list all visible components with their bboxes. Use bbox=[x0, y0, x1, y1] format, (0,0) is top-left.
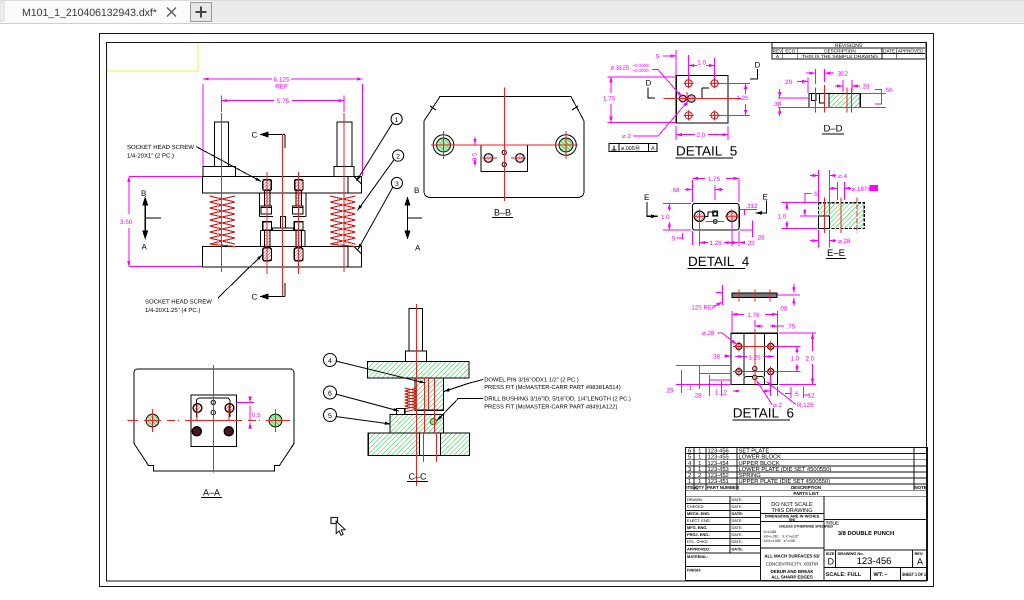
upper die block edges bbox=[260, 193, 307, 216]
svg-text:⌀.28: ⌀.28 bbox=[702, 330, 715, 337]
spring right bbox=[330, 196, 356, 247]
A-A centerlines bbox=[128, 365, 291, 473]
svg-text:.XXX=±.005 X°=±30´: .XXX=±.005 X°=±30´ bbox=[763, 539, 796, 543]
C-C dowel pins red bbox=[424, 378, 437, 462]
spring left bbox=[210, 196, 236, 247]
A-A small hole upper bbox=[211, 400, 215, 404]
svg-text:2: 2 bbox=[698, 472, 701, 479]
E-E pins red bbox=[825, 198, 858, 234]
svg-text:(IN): (IN) bbox=[789, 517, 796, 522]
svg-text:M101_1_210406132943.dxf*: M101_1_210406132943.dxf* bbox=[22, 7, 157, 19]
svg-text:1.12: 1.12 bbox=[715, 390, 728, 397]
svg-text:C–C: C–C bbox=[408, 472, 427, 482]
bottom plate bbox=[203, 247, 362, 268]
svg-text:APPROVED:: APPROVED: bbox=[687, 547, 710, 552]
B-B centerlines bbox=[431, 88, 578, 202]
leader dowel pin note bbox=[444, 380, 483, 392]
svg-text:1: 1 bbox=[698, 467, 701, 473]
svg-text:1: 1 bbox=[698, 449, 701, 455]
svg-text:A: A bbox=[142, 243, 148, 252]
svg-text:LOWER BLOCK: LOWER BLOCK bbox=[739, 454, 782, 461]
svg-text:1.75: 1.75 bbox=[747, 312, 760, 319]
svg-text:⌀.187±: ⌀.187± bbox=[852, 186, 872, 193]
detail4 dim .68 bbox=[685, 185, 724, 200]
svg-text:2: 2 bbox=[396, 153, 400, 160]
detail4 dim .312 right bbox=[739, 209, 757, 215]
svg-text:⌀.28: ⌀.28 bbox=[838, 238, 851, 245]
detail6 dim .75 bbox=[755, 320, 784, 327]
lower screw left: shank bbox=[265, 230, 270, 248]
detail4 block bbox=[692, 203, 739, 230]
svg-text:1.0: 1.0 bbox=[661, 214, 670, 221]
lower screw right: shank bbox=[296, 230, 301, 248]
E-E dim dia .187 bbox=[830, 182, 852, 200]
svg-text:ALL MACH SURFACES 63/: ALL MACH SURFACES 63/ bbox=[764, 554, 820, 559]
mouse cursor arrow bbox=[336, 521, 345, 535]
svg-text:WT: –: WT: – bbox=[874, 572, 888, 578]
detail6 dim 2.0 right bbox=[779, 333, 816, 384]
svg-text:SIZE: SIZE bbox=[826, 551, 835, 556]
svg-text:LOWER PLATE (DIE SET 4500550): LOWER PLATE (DIE SET 4500550) bbox=[739, 466, 832, 473]
detail4 dim .25 bbox=[732, 231, 745, 246]
svg-text:⌀.005Ⓜ: ⌀.005Ⓜ bbox=[621, 145, 641, 152]
detail4 dim .5 bbox=[677, 231, 693, 245]
svg-text:DATE: DATE bbox=[883, 49, 895, 54]
svg-text:1.75: 1.75 bbox=[708, 176, 721, 183]
A-A bolt top-left bbox=[193, 404, 202, 413]
svg-text:.312: .312 bbox=[836, 71, 849, 78]
revisions table bbox=[772, 43, 925, 59]
D-D bar bbox=[809, 93, 860, 107]
section marker B/A left bbox=[143, 198, 161, 238]
svg-text:123-453: 123-453 bbox=[708, 466, 729, 473]
C-C punch holder block bbox=[390, 415, 444, 434]
svg-text:E: E bbox=[763, 193, 768, 202]
svg-text:2.0: 2.0 bbox=[806, 356, 815, 363]
detail6 left ext lines bbox=[676, 366, 731, 396]
leader drill bushing note bbox=[437, 399, 483, 421]
svg-text:C: C bbox=[252, 131, 258, 140]
svg-text:QTY: QTY bbox=[695, 485, 704, 490]
svg-text:⌀.2: ⌀.2 bbox=[622, 133, 631, 140]
E-E notch bbox=[819, 216, 830, 229]
svg-text:1.0: 1.0 bbox=[697, 60, 706, 67]
svg-text:APPROVED: APPROVED bbox=[898, 49, 924, 54]
svg-text:⌀.3125: ⌀.3125 bbox=[611, 65, 630, 72]
svg-text:SCALE: FULL: SCALE: FULL bbox=[826, 572, 862, 578]
svg-text:.5: .5 bbox=[654, 53, 660, 60]
svg-text:.68: .68 bbox=[671, 187, 680, 194]
D-D dim .38 bbox=[778, 89, 886, 116]
svg-text:MFG. ENG.: MFG. ENG. bbox=[687, 525, 707, 530]
svg-text:DOWEL PIN 3/16”ODX1 1/2” (2 PC: DOWEL PIN 3/16”ODX1 1/2” (2 PC.) bbox=[484, 377, 579, 384]
svg-text:–0.0000: –0.0000 bbox=[632, 68, 649, 73]
B-B small hole lower bbox=[502, 162, 506, 166]
detail6 holes bbox=[736, 343, 774, 379]
upper screw left: head bbox=[263, 180, 271, 191]
svg-text:DRILL BUSHING 3/16”ID, 5/16”OD: DRILL BUSHING 3/16”ID, 5/16”OD, 1/4”LENG… bbox=[484, 396, 631, 403]
svg-text:FINISH:: FINISH: bbox=[687, 568, 701, 573]
detail5 D cut mark center bbox=[702, 88, 709, 98]
svg-text:.38: .38 bbox=[773, 101, 782, 108]
A-A plate outline bbox=[134, 369, 294, 471]
C-C shank collar bbox=[406, 351, 427, 362]
svg-text:123-452: 123-452 bbox=[708, 472, 729, 479]
balloon 1 bbox=[357, 113, 403, 181]
yellow zoom-window rectangle bbox=[107, 43, 198, 72]
D-D dim .312 bbox=[806, 69, 834, 84]
svg-text:DRAWN:: DRAWN: bbox=[687, 497, 703, 502]
A-A small hole lower bbox=[211, 410, 215, 414]
A-A bushing right bbox=[269, 414, 282, 427]
svg-text:TITLE:: TITLE: bbox=[826, 521, 840, 526]
svg-text:DTL. CHKD.: DTL. CHKD. bbox=[687, 539, 709, 544]
detail4 keyway path bbox=[705, 212, 713, 216]
B-B plate outline bbox=[424, 97, 584, 198]
detail6 dim .12 bbox=[804, 387, 810, 398]
svg-text:0.5: 0.5 bbox=[472, 152, 479, 161]
detail5 dim .5 bbox=[663, 50, 676, 75]
dim 3.50 bbox=[129, 177, 202, 267]
svg-text:PROJ. ENG.:: PROJ. ENG.: bbox=[687, 532, 711, 537]
detail6 dim 1.0 right bbox=[775, 346, 801, 371]
svg-text:4: 4 bbox=[328, 358, 332, 365]
svg-text:6.125: 6.125 bbox=[274, 77, 290, 84]
D-D pin lines red bbox=[815, 85, 851, 113]
detail6 dim .125 REF bbox=[716, 284, 800, 306]
svg-text:123-454: 123-454 bbox=[708, 460, 730, 467]
E-E block bbox=[819, 203, 865, 229]
svg-text:CHECKD:: CHECKD: bbox=[687, 504, 705, 509]
svg-text:.312: .312 bbox=[746, 203, 759, 210]
detail4 hole right bbox=[725, 209, 739, 223]
title block right texts bbox=[826, 521, 926, 579]
svg-text:1/4-20X1” (2 PC.): 1/4-20X1” (2 PC.) bbox=[127, 153, 174, 160]
svg-text:ECO: ECO bbox=[785, 49, 795, 54]
svg-text:3.50: 3.50 bbox=[120, 219, 133, 226]
A-A punch profile bbox=[197, 398, 231, 417]
top plate bbox=[203, 177, 362, 194]
svg-text:REV: REV bbox=[773, 49, 783, 54]
lower screw right: nut bbox=[294, 222, 303, 231]
svg-text:1: 1 bbox=[395, 117, 399, 124]
svg-text:DETAIL 4: DETAIL 4 bbox=[688, 254, 750, 269]
svg-text:2.0: 2.0 bbox=[697, 132, 706, 139]
detail5 GD&T frame bbox=[609, 144, 657, 152]
svg-text:.25: .25 bbox=[665, 388, 674, 395]
svg-text:1: 1 bbox=[698, 455, 701, 461]
svg-text:.56: .56 bbox=[884, 87, 893, 94]
svg-text:SPRING: SPRING bbox=[739, 472, 762, 479]
E-E dim .5 bbox=[805, 194, 811, 203]
title block left column texts bbox=[687, 497, 743, 573]
svg-text:.XX=±.010 X.X°=±1/2°: .XX=±.010 X.X°=±1/2° bbox=[763, 535, 800, 539]
svg-text:.5: .5 bbox=[813, 191, 819, 198]
socket head screw note top bbox=[127, 144, 194, 160]
B-B bushing right bbox=[556, 135, 577, 156]
post collar left bbox=[203, 167, 236, 177]
svg-text:5.75: 5.75 bbox=[277, 98, 290, 105]
A-A die block bbox=[191, 395, 236, 446]
leader bottom note bbox=[218, 255, 262, 298]
A-A bushing left bbox=[146, 414, 159, 427]
svg-text:DATE:: DATE: bbox=[732, 504, 743, 509]
svg-text:REF: REF bbox=[275, 84, 288, 91]
C-C upper plate bbox=[368, 362, 470, 379]
svg-text:.75: .75 bbox=[787, 324, 796, 331]
E-E dim dia .4 bbox=[810, 170, 836, 214]
socket head screw note bottom bbox=[145, 299, 212, 315]
sheet inner frame bbox=[107, 43, 927, 582]
B-B dim 0.5 bbox=[474, 137, 476, 166]
B-B bolt right bbox=[516, 154, 525, 163]
C-C bushing circle bbox=[430, 418, 436, 424]
detail6 top bar pins red bbox=[739, 290, 770, 302]
detail5 center holes bbox=[679, 95, 695, 103]
drill bushing note bbox=[484, 396, 631, 411]
C-C screw head small bbox=[397, 409, 405, 415]
svg-text:CONCENTRICITY .003TIR: CONCENTRICITY .003TIR bbox=[766, 562, 819, 567]
svg-text:5: 5 bbox=[688, 455, 691, 461]
detail6 centerlines red bbox=[733, 329, 776, 386]
svg-text:1.25: 1.25 bbox=[710, 240, 723, 247]
svg-text:A–A: A–A bbox=[203, 488, 220, 498]
svg-text:.12: .12 bbox=[806, 393, 815, 400]
svg-text:DETAIL 6: DETAIL 6 bbox=[733, 406, 794, 421]
upper screw right: bushing bbox=[293, 206, 304, 214]
svg-text:⌀.4: ⌀.4 bbox=[838, 173, 847, 180]
svg-text:1.0: 1.0 bbox=[791, 356, 800, 363]
svg-text:DATE:: DATE: bbox=[732, 539, 743, 544]
svg-text:5: 5 bbox=[328, 413, 332, 420]
lower screw left: head bbox=[263, 248, 272, 261]
C-C lower plate slot bbox=[419, 433, 440, 456]
detail5 dim 1.0 bbox=[689, 55, 715, 79]
svg-text:123-456: 123-456 bbox=[857, 556, 892, 567]
svg-text:E: E bbox=[644, 193, 649, 202]
leader top note bbox=[196, 147, 261, 182]
svg-text:3: 3 bbox=[688, 466, 691, 473]
svg-text:REV:: REV: bbox=[915, 551, 924, 556]
detail4 dim 1.25 bbox=[700, 223, 732, 246]
svg-text:DESCRIPTION: DESCRIPTION bbox=[791, 485, 821, 490]
svg-text:D: D bbox=[646, 79, 652, 88]
svg-text:.28: .28 bbox=[756, 235, 765, 242]
svg-text:ELECT. ENG.: ELECT. ENG. bbox=[687, 518, 711, 523]
svg-text:3/8 DOUBLE PUNCH: 3/8 DOUBLE PUNCH bbox=[838, 530, 894, 537]
svg-text:.1: .1 bbox=[687, 385, 693, 392]
svg-text:1.25: 1.25 bbox=[749, 354, 762, 361]
D-D bar left white portion bbox=[810, 94, 829, 107]
svg-text:MECH. ENG.: MECH. ENG. bbox=[687, 511, 710, 516]
upper screw right: head bbox=[295, 180, 303, 191]
lower screw left: nut bbox=[263, 222, 272, 231]
upper screw left: shank bbox=[265, 190, 270, 206]
svg-text:1/4-20X1.25” (4 PC.): 1/4-20X1.25” (4 PC.) bbox=[145, 307, 200, 314]
svg-text:.5: .5 bbox=[794, 391, 800, 398]
detail4 dim 1.75 bbox=[692, 178, 739, 202]
upper screw right: shank bbox=[296, 190, 301, 206]
detail5 corner holes bbox=[684, 78, 720, 120]
detail5 dim 1.25 bbox=[719, 83, 750, 115]
detail6 plate inner lines bbox=[744, 333, 765, 384]
detail5 centerline vertical bbox=[686, 92, 688, 105]
C-C centerline bbox=[416, 304, 418, 486]
svg-text:DEBUR AND BREAK: DEBUR AND BREAK bbox=[770, 569, 814, 574]
detail6 dim 1.25 bbox=[735, 356, 774, 358]
svg-text:6: 6 bbox=[688, 448, 691, 455]
svg-text:R.125: R.125 bbox=[797, 402, 814, 409]
svg-text:2: 2 bbox=[688, 472, 691, 479]
C-C shank bbox=[409, 309, 423, 352]
svg-text:.29: .29 bbox=[784, 79, 793, 86]
detail6 plate bbox=[731, 333, 778, 384]
C-C balloon 4 bbox=[324, 354, 426, 384]
sheet outer frame bbox=[100, 34, 934, 587]
svg-text:B: B bbox=[414, 186, 419, 195]
svg-text:D: D bbox=[755, 61, 761, 70]
svg-text:DATE:: DATE: bbox=[732, 511, 744, 516]
lower die block edges bbox=[261, 230, 306, 246]
A-A dim 0.5 bbox=[237, 397, 255, 430]
svg-text:SOCKET HEAD SCREW: SOCKET HEAD SCREW bbox=[145, 299, 212, 306]
svg-text:1: 1 bbox=[698, 461, 701, 467]
svg-text:6: 6 bbox=[328, 390, 332, 397]
title block middle texts bbox=[763, 502, 834, 580]
svg-text:B: B bbox=[141, 189, 146, 198]
svg-text:D–D: D–D bbox=[823, 124, 842, 135]
svg-text:UPPER BLOCK: UPPER BLOCK bbox=[739, 460, 780, 467]
svg-text:DATE:: DATE: bbox=[732, 532, 743, 537]
svg-text:123-456: 123-456 bbox=[708, 448, 729, 455]
svg-text:A: A bbox=[917, 557, 923, 567]
svg-text:1.25: 1.25 bbox=[737, 95, 750, 102]
svg-text:123-455: 123-455 bbox=[708, 454, 729, 461]
dowel pin note bbox=[484, 377, 621, 392]
detail6 dim 1.75 bbox=[732, 311, 778, 332]
svg-text:PART NUMBER: PART NUMBER bbox=[707, 485, 740, 490]
svg-text:THIS IS THE SAMPLE DRAWING: THIS IS THE SAMPLE DRAWING bbox=[802, 54, 878, 59]
detail6 cutout white bbox=[745, 378, 764, 384]
B-B small hole upper bbox=[502, 150, 506, 154]
A-A bolt bottom-left bbox=[192, 427, 201, 436]
red centerlines front view bbox=[222, 113, 345, 296]
D-D dim .28 bbox=[835, 80, 860, 92]
svg-text:1.75: 1.75 bbox=[603, 96, 616, 103]
svg-text:DATE:: DATE: bbox=[732, 518, 743, 523]
guide post left bbox=[215, 122, 229, 167]
B-B bolt left bbox=[484, 154, 493, 163]
svg-text:NOTE: NOTE bbox=[914, 485, 926, 490]
detail6 top bar bbox=[732, 293, 777, 298]
A-A bolt top-right bbox=[225, 404, 234, 413]
svg-text:.28: .28 bbox=[693, 392, 702, 399]
detail5 dim 1.75 bbox=[607, 77, 676, 123]
svg-text:.25: .25 bbox=[746, 240, 755, 247]
D-D dim .29 bbox=[797, 78, 808, 93]
C-C lower plate bbox=[368, 433, 469, 456]
punch bbox=[272, 216, 293, 230]
balloon 2 bbox=[358, 150, 404, 210]
svg-text:DETAIL 5: DETAIL 5 bbox=[676, 144, 737, 159]
svg-text:.X=±.030: .X=±.030 bbox=[763, 530, 777, 534]
svg-text:A: A bbox=[651, 146, 655, 152]
detail5 dim 2.0 bbox=[676, 126, 728, 140]
svg-text:3: 3 bbox=[395, 181, 399, 188]
mouse cursor square pick-box bbox=[331, 518, 345, 536]
D-D dim .56 bbox=[861, 90, 887, 105]
dim 5.75 bbox=[222, 96, 344, 112]
svg-text:D: D bbox=[828, 557, 835, 567]
svg-text:PRESS FIT (McMASTER-CARR PART: PRESS FIT (McMASTER-CARR PART #98381A514… bbox=[484, 384, 621, 391]
detail4 small hole lower bbox=[706, 220, 724, 224]
B-B bushing left bbox=[433, 135, 454, 156]
svg-text:SOCKET HEAD SCREW: SOCKET HEAD SCREW bbox=[127, 144, 194, 151]
svg-text:C: C bbox=[252, 293, 258, 302]
detail4 dim .28 bbox=[740, 221, 753, 237]
svg-text:E–E: E–E bbox=[827, 248, 845, 259]
svg-text:.38: .38 bbox=[712, 354, 721, 361]
B-B chamfer step ticks bbox=[430, 106, 578, 110]
svg-text:SET PLATE: SET PLATE bbox=[739, 448, 770, 455]
detail6 dim .5 bottom right bbox=[764, 375, 791, 398]
C-C spring bbox=[405, 388, 417, 412]
svg-text:.125 REF: .125 REF bbox=[690, 304, 716, 311]
C-C balloon 5 bbox=[324, 409, 391, 425]
svg-text:DATE:: DATE: bbox=[732, 547, 744, 552]
upper screw left: bushing bbox=[261, 206, 272, 214]
svg-text:.5: .5 bbox=[670, 235, 676, 242]
C-C balloon 6 bbox=[324, 386, 400, 411]
svg-text:SHEET 1 OF 1: SHEET 1 OF 1 bbox=[902, 572, 926, 578]
svg-text:DATE:: DATE: bbox=[732, 525, 743, 530]
svg-text:0.5: 0.5 bbox=[252, 412, 261, 419]
detail4 dim 1.0 left bbox=[663, 203, 691, 230]
svg-text:DATE:: DATE: bbox=[732, 497, 743, 502]
C-C pin block bbox=[415, 378, 444, 410]
detail4 small hole upper bbox=[713, 211, 718, 216]
E-E dim 1.0 bbox=[782, 203, 818, 229]
detail5 plate bbox=[676, 76, 728, 123]
svg-text:.08: .08 bbox=[779, 306, 788, 313]
tab bar bbox=[0, 0, 1024, 24]
svg-text:PRESS FIT (McMASTER-CARR PART: PRESS FIT (McMASTER-CARR PART #8491A122) bbox=[484, 403, 617, 410]
A-A bolt bottom-right bbox=[224, 427, 233, 436]
B-B die block bbox=[481, 145, 528, 171]
svg-text:A: A bbox=[415, 244, 421, 253]
detail5 centerline horizontal bbox=[664, 98, 742, 100]
guide post right bbox=[337, 122, 352, 167]
lower screw right: head bbox=[294, 248, 303, 261]
dim 6.125 REF bbox=[203, 79, 363, 176]
balloon 3 bbox=[358, 177, 403, 249]
post collar right bbox=[334, 167, 354, 177]
svg-text:DESCRIPTION: DESCRIPTION bbox=[824, 49, 855, 54]
E-E dim dia .28 bbox=[810, 230, 836, 247]
section marker B/A right bbox=[405, 198, 422, 238]
svg-text:B–B: B–B bbox=[494, 208, 511, 218]
svg-text:ALL SHARP EDGES: ALL SHARP EDGES bbox=[771, 575, 813, 580]
svg-text:PARTS LIST: PARTS LIST bbox=[793, 491, 819, 496]
svg-text:.28: .28 bbox=[861, 84, 870, 91]
svg-text:1.0: 1.0 bbox=[778, 213, 787, 220]
svg-text:MATERIAL:: MATERIAL: bbox=[687, 554, 708, 559]
detail4 hole left bbox=[693, 209, 707, 223]
